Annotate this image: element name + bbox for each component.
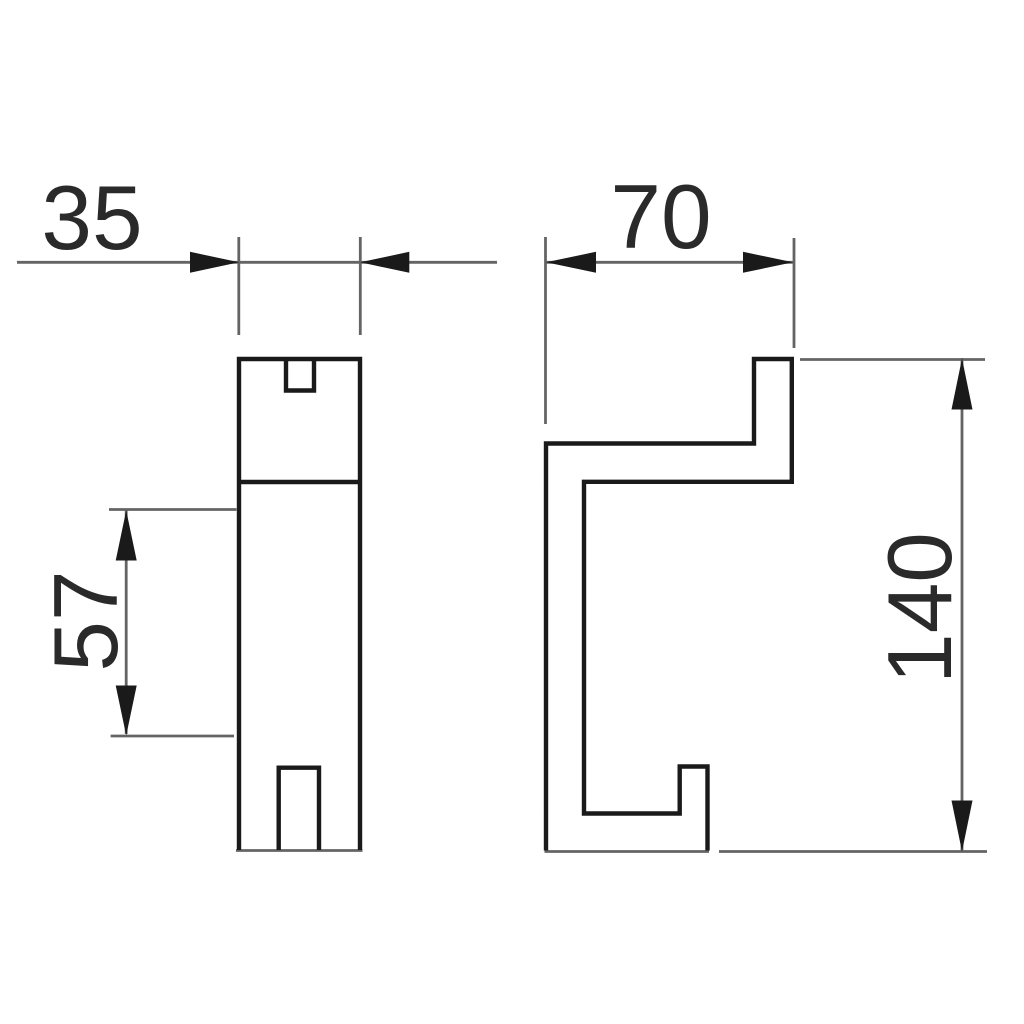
- svg-text:140: 140: [870, 532, 971, 684]
- svg-text:57: 57: [36, 570, 137, 671]
- svg-text:70: 70: [610, 167, 711, 268]
- svg-text:35: 35: [41, 168, 142, 269]
